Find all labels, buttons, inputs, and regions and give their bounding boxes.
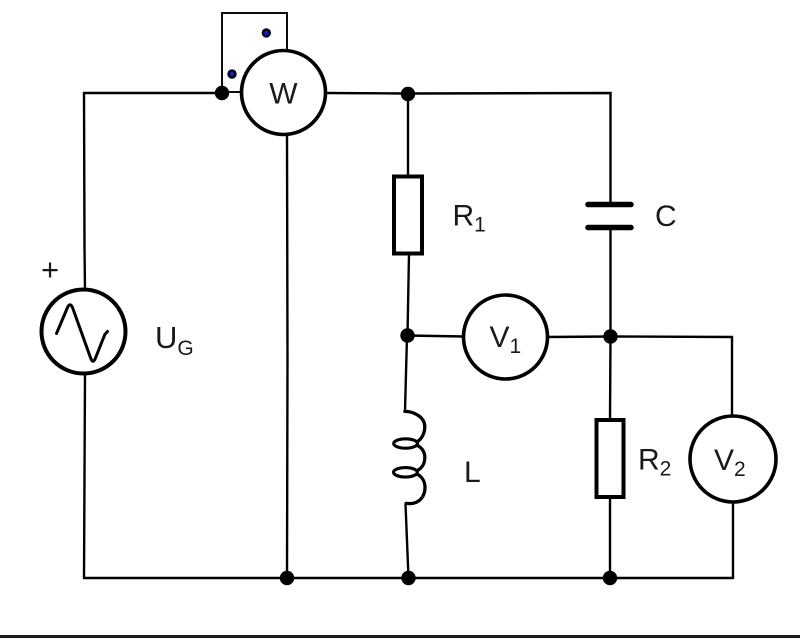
- inductor L coil loop 1: [394, 439, 418, 448]
- wire R1 branch top: [407, 94, 409, 176]
- junction dot bottom W node: [280, 571, 294, 585]
- svg-text:L: L: [464, 456, 481, 489]
- svg-text:R2: R2: [638, 444, 671, 481]
- inductor L coil loop 2: [394, 468, 418, 477]
- wire R2 branch top: [609, 337, 612, 420]
- wire W to R1 node: [326, 92, 409, 95]
- resistor R2: [597, 420, 624, 497]
- inductor L coil bump 3: [406, 474, 425, 503]
- junction dot middle right node: [603, 329, 617, 343]
- bottom border line: [0, 635, 800, 638]
- wire L branch top: [405, 336, 407, 411]
- wire top-left horizontal: [84, 92, 222, 94]
- svg-text:R1: R1: [453, 200, 486, 237]
- junction dot middle left node: [400, 328, 414, 342]
- resistor R1: [394, 177, 422, 254]
- wire capacitor bottom to right node: [609, 230, 611, 337]
- wire W bottom down: [286, 135, 289, 579]
- voltmeter V2 circle: [690, 416, 776, 502]
- wattmeter voltage-coil box: [222, 13, 287, 92]
- junction dot left of W: [215, 86, 229, 100]
- junction dot bottom R2 node: [603, 571, 617, 585]
- svg-text:+: +: [41, 252, 59, 287]
- wire bottom rail: [84, 577, 733, 579]
- wire left rail lower: [84, 374, 85, 579]
- inductor L coil bump 1: [405, 411, 425, 442]
- wire V2 bottom: [732, 502, 734, 578]
- capacitor C plate bottom: [588, 225, 631, 231]
- junction dot bottom L node: [401, 571, 415, 585]
- junction dot top R1 node: [401, 87, 415, 101]
- inductor L coil bump 2: [417, 445, 425, 470]
- AC source sine wave: [57, 305, 108, 362]
- wire V1 to right node: [548, 335, 611, 338]
- wattmeter W circle: [242, 51, 326, 135]
- wire middle node to V1: [408, 336, 464, 337]
- wire left rail upper: [84, 93, 85, 291]
- blue dot lower: [229, 71, 236, 78]
- voltmeter V1 circle: [464, 295, 548, 379]
- capacitor C plate top: [588, 202, 631, 208]
- AC source UG circle: [42, 290, 126, 374]
- wire R1 bottom to middle node: [408, 254, 410, 336]
- wire R2 bottom: [609, 497, 611, 578]
- wire right node to V2 corner: [611, 337, 733, 417]
- wire top to capacitor corner: [408, 93, 611, 202]
- svg-text:UG: UG: [155, 320, 194, 360]
- blue dot upper: [263, 30, 270, 37]
- svg-text:C: C: [655, 200, 677, 233]
- wire L bottom: [406, 504, 409, 578]
- svg-text:W: W: [269, 78, 298, 111]
